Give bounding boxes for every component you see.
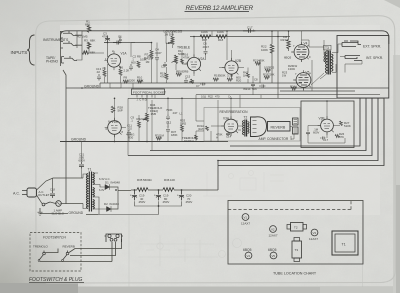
svg-text:V4: V4 xyxy=(304,42,308,46)
signal rail wire row y98 xyxy=(128,97,384,99)
svg-text:470K: 470K xyxy=(183,56,190,60)
svg-text:10Ω: 10Ω xyxy=(201,95,206,99)
jack INT SPKR xyxy=(345,56,362,61)
svg-text:.047: .047 xyxy=(172,111,178,115)
resistor R4 68K xyxy=(82,51,95,55)
ghost bleed-through marks xyxy=(138,235,242,266)
capacitor C17 coupling on top wire xyxy=(243,25,255,33)
capacitor C5 xyxy=(161,62,167,69)
resistor R6 2.2K cathode xyxy=(119,66,129,76)
svg-text:FOOT PEDAL SOCKET: FOOT PEDAL SOCKET xyxy=(133,90,166,94)
chart transformer T2 xyxy=(287,223,307,232)
svg-text:GROUND: GROUND xyxy=(84,84,100,88)
wire V2A plate up xyxy=(182,37,194,77)
svg-text:600: 600 xyxy=(131,60,136,64)
svg-text:510K: 510K xyxy=(344,124,351,128)
T1 secondary leads xyxy=(93,173,107,215)
resistor R7 plate xyxy=(137,55,147,68)
resistor R5 1M xyxy=(103,67,107,77)
chart tube V4 with 6BQ5 xyxy=(243,248,252,259)
svg-text:INSTRUMENTS: INSTRUMENTS xyxy=(43,38,69,42)
svg-text:A.C.: A.C. xyxy=(13,192,20,196)
svg-text:68K: 68K xyxy=(90,39,95,43)
chart tube V2 xyxy=(269,226,278,238)
FOOT PEDAL SOCKET box xyxy=(132,89,167,95)
svg-text:1MΩ: 1MΩ xyxy=(180,122,186,126)
jack J3 tape xyxy=(62,56,78,63)
footswitch bottom wire xyxy=(40,242,112,262)
svg-text:T2: T2 xyxy=(294,226,298,230)
svg-text:C7: C7 xyxy=(196,84,200,88)
svg-text:10K: 10K xyxy=(142,117,147,121)
resistor R33 1M xyxy=(180,119,186,132)
wire from ground stub to bus xyxy=(99,83,101,88)
svg-text:450V: 450V xyxy=(186,200,193,204)
resistor R18 100K xyxy=(216,30,227,42)
FOOTSWITCH dashed box xyxy=(30,233,81,272)
reverb tank unit xyxy=(251,117,267,137)
junction dots power xyxy=(115,189,182,207)
svg-text:12AX7: 12AX7 xyxy=(241,222,250,226)
svg-text:⊥ C ∇ Ω: ⊥ C ∇ Ω xyxy=(136,98,147,102)
svg-text:470K: 470K xyxy=(258,59,265,63)
svg-text:R9: R9 xyxy=(124,76,128,80)
svg-text:REVERB: REVERB xyxy=(271,125,286,129)
svg-text:V3: V3 xyxy=(313,231,317,235)
instrument lead tick xyxy=(62,40,64,42)
resistor R35 5600 ohm xyxy=(137,178,152,191)
triode V2B xyxy=(225,59,241,74)
svg-text:D2: D2 xyxy=(104,202,108,206)
ghost bleed above chart xyxy=(203,170,284,196)
wire fillers mid band xyxy=(167,43,262,99)
wire jack column to grid xyxy=(82,25,104,53)
svg-text:T3: T3 xyxy=(295,248,299,252)
capacitor C1 .02 xyxy=(113,35,123,45)
resistor R16 xyxy=(181,53,190,64)
svg-text:47K: 47K xyxy=(160,75,165,79)
svg-text:+: + xyxy=(154,194,156,198)
resistor R23A 1M xyxy=(281,35,291,49)
svg-text:600V: 600V xyxy=(313,131,319,135)
electrolytic C19 40 450V xyxy=(130,190,145,204)
svg-text:100K: 100K xyxy=(261,48,268,52)
svg-text:OUTLET: OUTLET xyxy=(38,193,50,197)
A.C. plug leads xyxy=(22,191,27,195)
plug pin 4 xyxy=(114,238,117,241)
resistor R31A xyxy=(197,124,209,131)
svg-text:1M: 1M xyxy=(146,60,151,64)
capacitor C6 .0047 xyxy=(202,42,209,56)
pentode V5 xyxy=(295,71,311,88)
top feed wire y36 with resistors R17 R18 xyxy=(190,36,290,38)
plug pin 1 xyxy=(108,234,111,237)
tremolo switch xyxy=(38,251,45,262)
resistor ladder right of V2B xyxy=(282,71,288,78)
svg-text:12AX7: 12AX7 xyxy=(269,234,278,238)
resistor R42 10K xyxy=(243,71,250,78)
ground bus power section xyxy=(40,214,98,215)
resistor R28 56K xyxy=(111,106,123,113)
svg-text:C: C xyxy=(236,119,238,123)
FOOTSWITCH & PLUG caption xyxy=(29,277,84,283)
svg-text:1M: 1M xyxy=(283,35,288,39)
riser wire from power supply xyxy=(217,161,219,191)
svg-text:EXT. SPKR.: EXT. SPKR. xyxy=(363,44,381,48)
triode V3A xyxy=(223,117,238,133)
resistor R20A 600 xyxy=(236,76,242,83)
svg-text:T2: T2 xyxy=(244,115,248,119)
svg-text:GROUND: GROUND xyxy=(69,211,84,215)
wires tone stack xyxy=(131,43,157,84)
svg-text:56P: 56P xyxy=(118,109,123,113)
triode V1B xyxy=(106,120,124,134)
footswitch wire mid2 xyxy=(46,242,116,256)
reverb transformer T2 xyxy=(242,115,249,136)
resistor R1 68K xyxy=(85,20,91,33)
jack J1 instrument xyxy=(61,31,78,38)
chassis ground symbol xyxy=(38,208,43,215)
B+ rail wire row y91 xyxy=(280,90,355,92)
svg-text:½ V1B: ½ V1B xyxy=(108,120,118,124)
triode V3B xyxy=(319,117,334,132)
resistor cap pair right of reverb xyxy=(293,118,299,134)
wires output tubes xyxy=(289,31,325,91)
power transformer T1 xyxy=(86,168,94,212)
svg-text:+: + xyxy=(177,194,179,198)
svg-text:450V: 450V xyxy=(139,200,146,204)
svg-text:R35: R35 xyxy=(137,178,143,182)
svg-text:D1: D1 xyxy=(105,181,109,185)
electrolytic C19B 80 450V xyxy=(154,190,169,204)
long wires from reverberation to left xyxy=(196,95,204,142)
resistor R15 volume feed xyxy=(160,72,168,80)
REVERBERATION section box xyxy=(204,108,300,142)
svg-text:INPUTS: INPUTS xyxy=(11,50,28,55)
svg-text:V2B: V2B xyxy=(235,59,241,63)
junction dots row xyxy=(81,30,328,161)
plug pin 3 xyxy=(110,238,113,241)
svg-text:3.3M: 3.3M xyxy=(227,74,234,78)
svg-text:R18: R18 xyxy=(218,38,224,42)
fuse label 1 AMP SLO-BLO xyxy=(52,208,65,215)
svg-text:1W: 1W xyxy=(282,74,287,78)
plate feed wire y42.5 xyxy=(104,42,152,44)
B+ wire segments xyxy=(131,189,218,191)
ground stub wire at left xyxy=(66,87,389,89)
resistor R13 1.5K xyxy=(189,79,195,84)
chart transformer T3 xyxy=(292,238,302,262)
svg-text:.0047: .0047 xyxy=(155,51,162,55)
tube pin stubs xyxy=(104,42,333,137)
BASS pot R7 xyxy=(144,50,153,64)
A.C. OUTLET label xyxy=(38,190,50,197)
pentode V4 xyxy=(293,42,311,60)
fuse F1 xyxy=(56,201,62,207)
capacitor tremolo .1M 600V xyxy=(306,128,319,136)
paper crease right xyxy=(362,200,364,293)
svg-text:V1A: V1A xyxy=(121,52,128,56)
capacitor C10 .047 xyxy=(166,108,178,120)
svg-text:TUBE LOCATION CHART: TUBE LOCATION CHART xyxy=(273,272,317,276)
svg-text:V4: V4 xyxy=(247,254,251,258)
capacitor C21 .005 600V xyxy=(79,153,86,169)
svg-text:IN914: IN914 xyxy=(243,87,251,91)
svg-text:R36: R36 xyxy=(164,178,170,182)
svg-text:T1: T1 xyxy=(342,243,346,247)
resistor R31 xyxy=(155,134,165,141)
wire V2B xyxy=(219,31,244,78)
wires phase splitter xyxy=(260,31,289,99)
svg-text:C15: C15 xyxy=(185,75,191,79)
resistor R27 510K xyxy=(340,121,351,128)
svg-text:R20: R20 xyxy=(236,79,242,83)
svg-text:IN4048: IN4048 xyxy=(111,181,121,185)
capacitor C3 4700 xyxy=(102,32,110,43)
svg-text:6BQ5: 6BQ5 xyxy=(284,56,292,60)
chart tube V5 with 6BQ5 xyxy=(268,248,277,259)
chassis outline top edge xyxy=(61,31,389,44)
resistor R19 500K xyxy=(213,74,226,82)
resistor R30 4.7MEG xyxy=(126,133,134,140)
tremolo wires xyxy=(115,83,183,142)
wires V3A to T2 xyxy=(211,98,244,141)
heater winding label xyxy=(99,188,105,192)
svg-text:V2: V2 xyxy=(271,228,275,232)
capacitor C11 xyxy=(127,124,132,136)
REVERB unit box xyxy=(268,122,291,132)
chart tube V1 xyxy=(241,214,250,226)
svg-text:(1M): (1M) xyxy=(198,127,204,131)
svg-text:100K: 100K xyxy=(201,30,208,34)
svg-text:T3: T3 xyxy=(325,46,329,50)
chassis left edge wire xyxy=(61,31,67,204)
svg-text:450V: 450V xyxy=(163,200,170,204)
svg-text:.02: .02 xyxy=(128,127,132,131)
input mix wire vertical xyxy=(75,31,82,60)
jack wall wire xyxy=(77,31,82,48)
chart transformer T1 square xyxy=(332,231,358,255)
svg-text:47K: 47K xyxy=(339,135,344,139)
resistor R9 220K xyxy=(123,76,135,84)
wire C6 node xyxy=(206,31,213,60)
svg-text:V3A: V3A xyxy=(223,117,230,121)
svg-text:180K: 180K xyxy=(171,133,178,137)
socket pins xyxy=(137,95,152,98)
wire plug to switch xyxy=(37,195,43,204)
svg-text:2.2K: 2.2K xyxy=(124,69,130,73)
ground bus wire (preamp) xyxy=(100,82,302,84)
capacitor C13 xyxy=(96,67,102,81)
chart chassis dashed line xyxy=(228,209,351,211)
svg-text:1M5: 1M5 xyxy=(151,112,157,116)
svg-text:220K: 220K xyxy=(129,79,136,83)
title: REVERB 12 AMPLIFIER xyxy=(185,5,254,12)
speaker compartment box xyxy=(337,36,389,99)
resistor R24A xyxy=(290,85,297,91)
bus rail wire y150.5 with right riser xyxy=(150,98,366,150)
chart tube V3 xyxy=(309,229,318,241)
capacitor C8 xyxy=(251,78,258,88)
svg-text:1K: 1K xyxy=(243,74,247,78)
diode D1 xyxy=(105,184,110,190)
svg-text:C•: C• xyxy=(228,95,231,99)
bus rail wire y160.5 with right riser xyxy=(218,98,378,160)
bus rail wire y146 with right riser xyxy=(230,98,360,146)
resistor R10 220K xyxy=(137,76,144,84)
svg-text:V5: V5 xyxy=(272,254,276,258)
resistor R26A 47K xyxy=(335,132,345,139)
ground bus lower with label xyxy=(60,141,228,143)
svg-text:130Ω: 130Ω xyxy=(288,67,295,71)
reverb switch xyxy=(62,251,69,262)
wires loudness/treble xyxy=(166,31,176,70)
resistor 470K reverb xyxy=(216,133,223,140)
capacitor C12 .1 xyxy=(166,121,172,133)
footswitch wire mid xyxy=(69,239,122,253)
svg-text:GROUND: GROUND xyxy=(71,138,87,142)
svg-text:R22: R22 xyxy=(208,95,213,99)
capacitor C14 reverb xyxy=(226,131,232,139)
svg-text:470: 470 xyxy=(215,95,220,99)
capacitor C15 .1 xyxy=(184,75,191,84)
bus rail wire y165.5 with right riser xyxy=(218,98,384,165)
plug pin 2 xyxy=(116,234,119,237)
label C16a xyxy=(228,95,231,99)
TREBLE pot xyxy=(172,55,178,64)
TUBE LOCATION CHART box xyxy=(228,201,363,265)
wire fuse to T1 xyxy=(50,202,83,204)
T3 secondary leads to jacks xyxy=(332,44,345,73)
wire C21 to T1 xyxy=(81,142,83,179)
svg-text:AMP. CONNECTOR: AMP. CONNECTOR xyxy=(259,137,289,141)
capacitor C17b xyxy=(320,137,329,143)
svg-text:T1: T1 xyxy=(88,168,92,172)
filter ground wire xyxy=(98,201,182,214)
svg-text:R3: R3 xyxy=(84,39,88,43)
triode V2A xyxy=(186,57,206,71)
svg-text:C5: C5 xyxy=(161,65,165,69)
svg-text:INT. SPKR.: INT. SPKR. xyxy=(366,56,383,60)
label row above reverberation xyxy=(201,95,220,99)
resistor R3 68K xyxy=(84,39,95,49)
resistor R29 220K xyxy=(263,73,275,80)
paper crease left xyxy=(128,0,130,293)
svg-text:TREBLE: TREBLE xyxy=(177,46,191,50)
diode D2 xyxy=(107,206,112,212)
capacitor C4 .0047 xyxy=(155,48,162,62)
output transformer T3 xyxy=(324,45,334,74)
wires V1A cathode to ground bus xyxy=(105,64,121,83)
resistor R21 470K xyxy=(253,59,265,66)
plug P1 body xyxy=(105,234,124,242)
diode D1 label 6.3V A.C. xyxy=(99,177,120,185)
svg-text:DEPTH: DEPTH xyxy=(184,139,194,143)
jack J2 instrument xyxy=(61,41,78,48)
svg-text:500K: 500K xyxy=(219,74,226,78)
capacitor C16 xyxy=(243,85,266,92)
svg-text:FOOTSWITCH: FOOTSWITCH xyxy=(43,236,66,240)
svg-text:10K: 10K xyxy=(170,178,175,182)
resistor R20 3.3M xyxy=(227,74,234,82)
svg-text:L1: L1 xyxy=(180,112,184,116)
bus rail wire y155.5 with right riser xyxy=(128,98,372,155)
wire C3 down to V1A grid xyxy=(104,36,120,57)
resistor R36 10K xyxy=(163,178,175,191)
diode D2 label xyxy=(104,202,119,206)
svg-text:6BQ5: 6BQ5 xyxy=(268,248,277,252)
cathode resistor R26 1W label xyxy=(288,64,298,71)
wire plug to transformer top xyxy=(37,178,84,191)
capacitor C9 xyxy=(131,116,135,123)
svg-text:68K: 68K xyxy=(90,51,95,55)
svg-text:V1: V1 xyxy=(244,216,248,220)
wire V3B bottom rail xyxy=(308,126,345,144)
svg-text:.02: .02 xyxy=(96,70,100,74)
MIDDLE pot label xyxy=(176,70,188,77)
line capacitor C18 xyxy=(50,188,55,199)
svg-text:V5: V5 xyxy=(306,71,310,75)
heater wires bottom left of preamp xyxy=(110,83,121,88)
rectifier output wires xyxy=(110,187,132,209)
svg-text:6BQ5: 6BQ5 xyxy=(243,248,252,252)
wire V3B plate up xyxy=(316,101,340,138)
A.C. plug body xyxy=(27,188,37,197)
wires reverb right xyxy=(267,126,295,140)
electrolytic C20 70 450V xyxy=(177,190,192,204)
resistor R22 100K xyxy=(261,44,274,53)
resistor R25 10 ohm xyxy=(264,66,275,73)
inputs brace xyxy=(27,35,35,65)
svg-text:A: A xyxy=(216,136,218,140)
TREMOLO DEPTH pot xyxy=(182,135,198,143)
T3 primary leads xyxy=(320,40,327,79)
triode V1A xyxy=(105,49,127,69)
svg-text:12AX7: 12AX7 xyxy=(309,237,318,241)
svg-text:PHONO: PHONO xyxy=(46,60,59,64)
svg-text:REVERBERATION: REVERBERATION xyxy=(220,110,249,114)
chart dashed right stub xyxy=(350,201,352,210)
resistor R17 100K xyxy=(200,30,211,42)
svg-text:C8: C8 xyxy=(254,78,258,82)
svg-text:REVERB: REVERB xyxy=(176,70,188,74)
svg-text:100K: 100K xyxy=(217,30,224,34)
B+ rail wire row y94.5 xyxy=(196,94,380,96)
TREMOLO FREQ pot R34 xyxy=(143,103,163,122)
svg-text:TREMOLO: TREMOLO xyxy=(33,245,49,249)
misc long vertical wires xyxy=(128,95,240,156)
svg-text:REVERB: REVERB xyxy=(63,245,75,249)
jack EXT SPKR xyxy=(342,41,361,47)
svg-text:V2A: V2A xyxy=(199,57,206,61)
power switch S1 xyxy=(42,202,50,206)
capacitor C2 .1 600V xyxy=(129,55,137,71)
V3B compartment box xyxy=(301,101,354,148)
T1 primary leads xyxy=(83,174,88,209)
resistor R37 180K xyxy=(171,130,178,137)
svg-text:5600Ω: 5600Ω xyxy=(143,178,152,182)
svg-text:+: + xyxy=(130,194,132,198)
LOUDNESS pot R14 xyxy=(168,36,174,45)
wire from INT jack down xyxy=(336,61,362,73)
svg-text:600V: 600V xyxy=(79,159,86,163)
small cap near C7 xyxy=(196,83,206,89)
svg-text:REVERB 12 AMPLIFIER: REVERB 12 AMPLIFIER xyxy=(186,5,254,12)
svg-text:6.3V: 6.3V xyxy=(99,188,105,192)
resistor R32 xyxy=(137,117,147,128)
